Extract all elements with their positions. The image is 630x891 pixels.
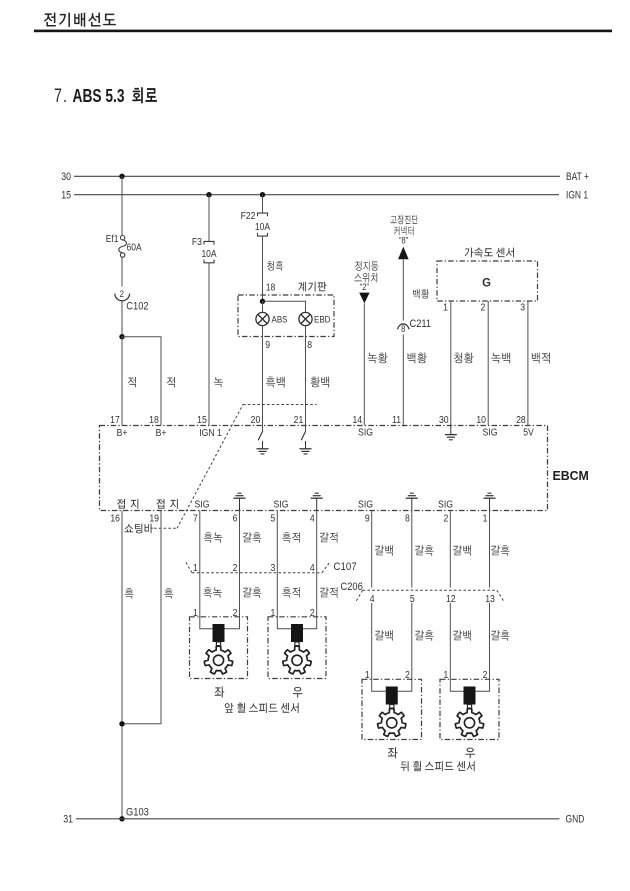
fuse Ef1 60A xyxy=(120,236,124,240)
svg-text:2: 2 xyxy=(480,302,485,314)
junction node G103 xyxy=(119,816,124,821)
svg-text:15: 15 xyxy=(61,190,71,202)
svg-text:7.: 7. xyxy=(54,85,68,106)
svg-text:19: 19 xyxy=(149,513,159,525)
pin 13 C206 xyxy=(485,593,495,605)
svg-text:F3: F3 xyxy=(192,237,202,249)
tone wheel gear xyxy=(455,709,483,737)
wire G pin1 xyxy=(450,301,452,425)
svg-text:ABS: ABS xyxy=(272,314,288,325)
wire color 적 xyxy=(167,377,175,387)
svg-text:C102: C102 xyxy=(126,301,149,313)
sensor pin 2 xyxy=(233,607,238,619)
label 31 xyxy=(63,814,73,826)
wire color 녹백 xyxy=(491,353,510,364)
svg-text:SIG: SIG xyxy=(195,499,210,511)
label 쇼팅바 xyxy=(124,524,152,534)
header rule xyxy=(34,30,612,33)
svg-text:SIG: SIG xyxy=(358,427,373,439)
label 5V pin28 xyxy=(523,427,534,439)
label C206 xyxy=(341,581,364,593)
wire xyxy=(411,603,413,680)
wire xyxy=(402,335,404,426)
wire xyxy=(402,259,404,320)
wire xyxy=(262,301,264,312)
wire xyxy=(225,616,240,629)
svg-text:30: 30 xyxy=(61,171,71,183)
wire xyxy=(450,679,463,692)
svg-text:GND: GND xyxy=(566,814,585,826)
ground pin 20 xyxy=(262,441,264,449)
svg-text:G103: G103 xyxy=(126,807,149,819)
tone wheel gear xyxy=(204,646,232,674)
sensor neck xyxy=(216,642,220,646)
svg-text:SIG: SIG xyxy=(483,427,498,439)
pin 4 C107 xyxy=(310,562,315,574)
label IGN 1 xyxy=(199,427,222,439)
label 정지등 스위치 "2" xyxy=(355,261,378,271)
svg-text:IGN 1: IGN 1 xyxy=(566,190,588,202)
svg-text:18: 18 xyxy=(266,282,276,294)
sensor coil xyxy=(291,624,303,642)
pin 17 xyxy=(110,414,120,426)
wire xyxy=(276,511,278,617)
label 계기판 xyxy=(298,282,326,292)
label 좌 xyxy=(215,687,225,698)
junction on bus 15 xyxy=(260,192,265,197)
pin 9 xyxy=(365,513,370,525)
pin 2 C107 xyxy=(233,562,238,574)
svg-text:SIG: SIG xyxy=(438,499,453,511)
ground pin 30 xyxy=(450,426,452,435)
label 우 xyxy=(465,748,474,759)
wire xyxy=(489,603,491,680)
tone wheel gear xyxy=(283,646,311,674)
svg-text:“2”: “2” xyxy=(360,282,369,292)
fuse F22 10A xyxy=(258,213,268,216)
wire color 갈흑 xyxy=(491,545,510,555)
svg-text:11: 11 xyxy=(392,414,401,426)
label SIG pin9 xyxy=(358,499,373,511)
wire color 갈적 xyxy=(320,587,338,597)
wire G pin2 xyxy=(487,301,489,425)
sensor coil xyxy=(386,687,398,705)
wire color 백황 xyxy=(408,353,427,364)
lamp EBD warning xyxy=(299,312,312,325)
wire branch to EBD lamp xyxy=(263,301,306,312)
junction node xyxy=(119,721,124,726)
wire color 청황 xyxy=(454,353,473,364)
svg-text:1: 1 xyxy=(443,302,448,314)
wire color 갈흑 xyxy=(491,630,510,640)
svg-text:15: 15 xyxy=(197,414,207,426)
instrument cluster box 계기판 xyxy=(238,295,334,337)
junction on bus 15 xyxy=(206,192,211,197)
pin 18 xyxy=(266,282,276,294)
svg-text:4: 4 xyxy=(310,562,315,574)
wire xyxy=(316,511,318,617)
pin 15 xyxy=(197,414,207,426)
label 앞 휠 스피드 센서 xyxy=(225,703,299,713)
label C107 xyxy=(334,560,357,573)
label SIG pin5 xyxy=(274,499,289,511)
ground pin 6 (inverted) xyxy=(238,492,242,494)
wire color 갈흑 xyxy=(243,532,262,542)
sensor coil xyxy=(464,687,476,705)
wire color 갈흑 xyxy=(415,545,434,555)
pin 1 xyxy=(443,302,448,314)
svg-text:G: G xyxy=(482,276,491,289)
svg-text:2: 2 xyxy=(120,288,125,299)
shorting bar dashed link xyxy=(154,527,177,529)
pin 1 xyxy=(483,513,488,525)
pin 18 xyxy=(149,414,159,426)
wire color 황백 xyxy=(311,377,330,388)
svg-text:14: 14 xyxy=(352,414,362,426)
ground pin 8 (inverted) xyxy=(410,492,414,494)
svg-text:“8”: “8” xyxy=(399,236,408,246)
bus line 15 IGN 1 xyxy=(74,194,559,196)
pin 2 xyxy=(443,513,448,525)
sensor coil xyxy=(213,624,225,642)
pin 20 xyxy=(251,414,261,426)
ground pin 21 xyxy=(305,441,307,449)
wire color 갈백 xyxy=(375,545,393,555)
label SIG pin2 xyxy=(438,499,453,511)
label SIG pin7 xyxy=(195,499,210,511)
wire color 흑녹 xyxy=(204,532,223,542)
label 15 xyxy=(61,190,71,202)
label Ef1 xyxy=(106,233,119,244)
pin 9 xyxy=(265,339,270,351)
wire xyxy=(121,301,123,337)
svg-text:21: 21 xyxy=(294,414,304,426)
wire xyxy=(277,616,291,629)
sensor pin 1 xyxy=(193,607,198,619)
EBCM module box xyxy=(100,426,548,511)
connector C206 row xyxy=(363,589,497,591)
svg-text:8: 8 xyxy=(401,323,406,334)
pin 3 C107 xyxy=(270,562,275,574)
label EBCM xyxy=(553,469,589,483)
wire xyxy=(200,616,213,629)
svg-text:B+: B+ xyxy=(117,427,128,439)
label GND xyxy=(566,814,585,826)
svg-text:18: 18 xyxy=(149,414,159,426)
sensor pin 2 xyxy=(310,607,315,619)
pin 8 xyxy=(405,513,410,525)
svg-text:17: 17 xyxy=(110,414,120,426)
wire color 갈백 xyxy=(453,630,471,640)
connector boundary dashed diagonal xyxy=(177,405,243,529)
svg-text:1: 1 xyxy=(193,562,198,574)
off-page arrow to diagnostic connector xyxy=(398,247,409,260)
svg-text:F22: F22 xyxy=(241,211,256,223)
wire color 녹 xyxy=(214,377,223,387)
wire color 흑 xyxy=(164,588,173,598)
svg-text:B+: B+ xyxy=(156,427,167,439)
pin 12 C206 xyxy=(446,593,456,605)
pin 16 xyxy=(110,513,120,525)
pin 1 C107 xyxy=(193,562,198,574)
sensor pin 2 xyxy=(405,670,410,682)
label 좌 xyxy=(388,747,398,758)
label SIG pin14 xyxy=(358,427,373,439)
wire color 갈적 xyxy=(320,532,338,542)
svg-text:3: 3 xyxy=(520,302,525,314)
wire xyxy=(121,176,123,235)
wire xyxy=(371,603,373,680)
connector boundary dashed horizontal xyxy=(243,404,317,406)
svg-text:20: 20 xyxy=(251,414,261,426)
sensor neck xyxy=(390,705,394,709)
svg-text:5V: 5V xyxy=(523,427,534,439)
wire xyxy=(208,195,210,242)
wire color 녹황 xyxy=(368,353,388,364)
sensor neck xyxy=(295,642,299,646)
pin 14 xyxy=(352,414,362,426)
sensor neck xyxy=(467,705,471,709)
svg-text:30: 30 xyxy=(439,414,449,426)
label 60A xyxy=(127,242,143,253)
svg-text:ABS 5.3: ABS 5.3 xyxy=(73,86,125,106)
wire to pin 17 xyxy=(121,337,123,426)
wire xyxy=(303,616,317,629)
svg-text:EBD: EBD xyxy=(314,314,330,325)
svg-text:31: 31 xyxy=(63,814,73,826)
svg-text:8: 8 xyxy=(405,513,410,525)
wire xyxy=(239,511,241,617)
fuse F3 10A xyxy=(204,241,214,244)
pin 4 xyxy=(310,513,315,525)
wire xyxy=(411,511,413,588)
sensor pin 1 xyxy=(270,607,275,619)
svg-text:Ef1: Ef1 xyxy=(106,233,119,244)
wire xyxy=(262,236,264,301)
svg-text:SIG: SIG xyxy=(358,499,373,511)
svg-text:C206: C206 xyxy=(341,581,364,593)
label ABS xyxy=(272,314,288,325)
svg-text:BAT +: BAT + xyxy=(566,171,589,183)
label IGN 1 xyxy=(566,190,588,202)
junction on bus 30 xyxy=(119,174,124,179)
sensor pin 1 xyxy=(365,670,370,682)
label C211 xyxy=(410,319,432,331)
pin 6 xyxy=(233,513,238,525)
bus line 31 GND xyxy=(76,818,560,820)
svg-text:10A: 10A xyxy=(255,221,271,232)
svg-text:C107: C107 xyxy=(334,560,357,573)
label 뒤 휠 스피드 센서 xyxy=(401,761,475,771)
switch contact pin 21 xyxy=(305,426,307,432)
pin 11 xyxy=(392,414,401,426)
wire color 흑백 xyxy=(266,377,285,388)
switch contact pin 20 xyxy=(262,426,264,432)
svg-text:10: 10 xyxy=(476,414,486,426)
svg-text:60A: 60A xyxy=(127,242,143,253)
label G103 xyxy=(126,807,149,819)
sensor pin 2 xyxy=(483,670,488,682)
svg-text:2: 2 xyxy=(443,513,448,525)
wire xyxy=(372,679,386,692)
pin 3 xyxy=(520,302,525,314)
svg-text:6: 6 xyxy=(233,513,238,525)
svg-text:9: 9 xyxy=(365,513,370,525)
pin 28 xyxy=(516,414,526,426)
sensor box 우 xyxy=(440,679,499,739)
wire xyxy=(449,511,451,588)
section title 7. ABS 5.3 회로 xyxy=(54,85,68,106)
page header 전기배선도 xyxy=(44,13,116,27)
pin 30 xyxy=(439,414,449,426)
svg-text:4: 4 xyxy=(310,513,315,525)
sensor box 좌 xyxy=(362,679,422,739)
tone wheel gear xyxy=(378,709,406,737)
svg-text:10A: 10A xyxy=(201,249,217,260)
wire xyxy=(398,679,412,692)
wire xyxy=(121,257,123,286)
pin 8 xyxy=(307,339,312,351)
wire xyxy=(476,679,490,692)
svg-text:28: 28 xyxy=(516,414,526,426)
wire color 청흑 xyxy=(267,261,283,271)
wire color 흑 xyxy=(125,588,134,598)
label 가속도 센서 xyxy=(465,248,514,258)
wire color 백황 xyxy=(413,289,429,299)
svg-text:1: 1 xyxy=(483,513,488,525)
label SIG pin10 xyxy=(483,427,498,439)
svg-text:9: 9 xyxy=(265,339,270,351)
wire pin16 to G103 xyxy=(121,511,123,819)
label 접지 pin19 xyxy=(156,499,177,509)
label BAT + xyxy=(566,171,589,183)
connector C102 pin 2 xyxy=(120,288,125,299)
pin 10 xyxy=(476,414,486,426)
wire xyxy=(489,511,491,588)
connector C107 row xyxy=(192,572,322,574)
wire G pin3 xyxy=(527,301,529,425)
wire color 흑적 xyxy=(282,587,300,597)
label 접지 pin16 xyxy=(117,499,138,509)
svg-text:16: 16 xyxy=(110,513,120,525)
wire xyxy=(208,263,210,425)
wire color 갈흑 xyxy=(415,630,434,640)
label G xyxy=(482,276,491,289)
sensor box 우 xyxy=(268,617,326,679)
wire color 갈흑 xyxy=(243,587,262,597)
wire xyxy=(449,603,451,680)
pin 5 C206 xyxy=(410,593,415,605)
pin 2 xyxy=(480,302,485,314)
label 고장진단 커넥터 "8" xyxy=(390,215,418,224)
ground pin 4 (inverted) xyxy=(315,492,319,494)
connector C211 pin 8 xyxy=(398,324,409,329)
svg-text:3: 3 xyxy=(270,562,275,574)
wire xyxy=(262,195,264,213)
svg-text:8: 8 xyxy=(307,339,312,351)
svg-text:SIG: SIG xyxy=(274,499,289,511)
wire xyxy=(371,511,373,588)
label B+ xyxy=(117,427,128,439)
wire color 흑녹 xyxy=(203,587,222,597)
wire pin19 xyxy=(122,511,161,724)
wire color 백적 xyxy=(532,353,550,364)
junction node xyxy=(119,334,124,339)
wire xyxy=(363,303,365,425)
pin 4 C206 xyxy=(370,593,375,605)
acceleration sensor box G xyxy=(437,261,538,301)
sensor box 좌 xyxy=(190,617,248,679)
svg-text:C211: C211 xyxy=(410,319,432,331)
label 우 xyxy=(293,687,302,698)
lamp ABS warning xyxy=(256,312,269,325)
sensor pin 1 xyxy=(443,670,448,682)
label 30 xyxy=(61,171,71,183)
label EBD xyxy=(314,314,330,325)
svg-text:2: 2 xyxy=(233,562,238,574)
pin 5 xyxy=(270,513,275,525)
wire color 갈백 xyxy=(375,630,393,640)
svg-text:EBCM: EBCM xyxy=(553,469,589,483)
label C102 xyxy=(126,301,149,313)
wire color 갈백 xyxy=(453,545,471,555)
label B+ xyxy=(156,427,167,439)
svg-text:IGN 1: IGN 1 xyxy=(199,427,222,439)
pin 21 xyxy=(294,414,304,426)
pin 7 xyxy=(193,513,198,525)
pin 19 xyxy=(149,513,159,525)
bus line 30 BAT+ xyxy=(74,175,560,177)
wire color 적 xyxy=(128,377,136,387)
ground pin 1 (inverted) xyxy=(488,492,492,494)
svg-text:7: 7 xyxy=(193,513,198,525)
wire branch to pin 18 xyxy=(122,337,161,426)
junction node xyxy=(260,299,265,304)
wire from ABS lamp xyxy=(262,326,264,426)
off-page arrow to stop lamp switch xyxy=(359,293,369,304)
wire xyxy=(199,511,201,617)
wire from EBD lamp xyxy=(305,326,307,426)
wire color 흑적 xyxy=(282,532,300,542)
svg-text:5: 5 xyxy=(270,513,275,525)
